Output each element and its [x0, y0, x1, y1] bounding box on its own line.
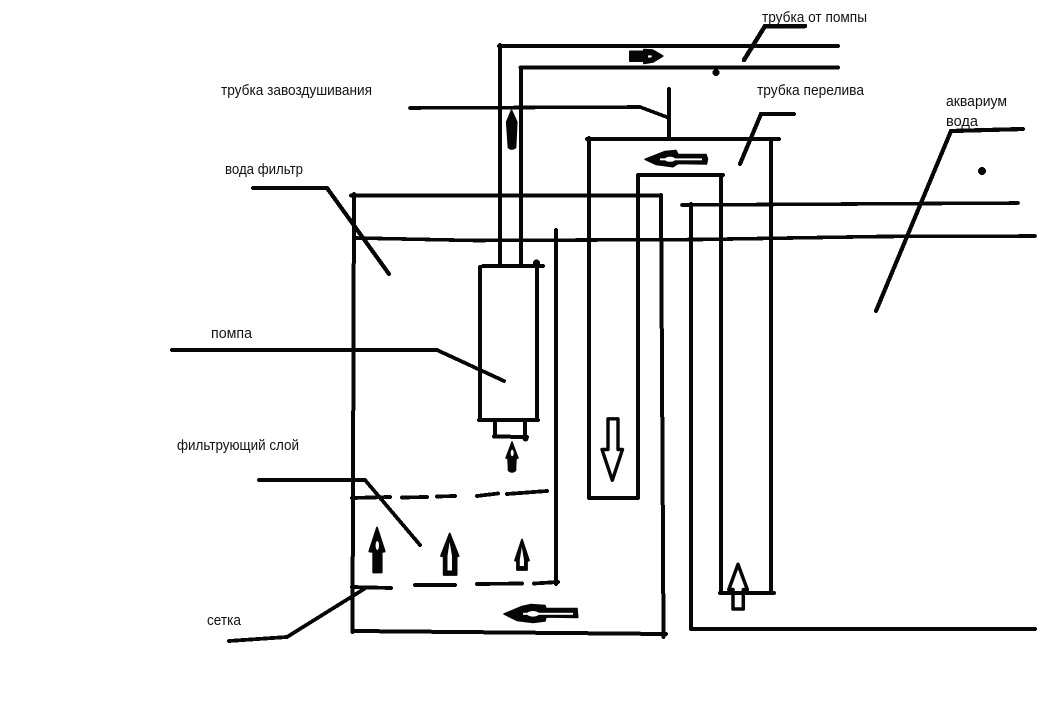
arrow: flow up in overflow right channel [729, 564, 748, 609]
wire: filter box left wall [353, 194, 355, 632]
wire: aquarium left wall [689, 204, 693, 629]
pump P1 left edge [478, 267, 482, 420]
wire: overflow box left wall [587, 138, 591, 498]
svg-text:вода фильтр: вода фильтр [225, 161, 303, 178]
wire: filter water level line [356, 236, 1035, 241]
wire: aquarium bottom edge [692, 627, 1035, 631]
wire: overflow box top edge [587, 137, 779, 141]
node: blob at pump top right [533, 260, 540, 267]
arrow: flow up through filter media 2 [441, 534, 459, 576]
svg-text:трубка перелива: трубка перелива [757, 82, 865, 99]
svg-text:трубка от помпы: трубка от помпы [762, 9, 867, 26]
wire: label pointer трубка перелива [740, 114, 794, 164]
wire: filter box top edge [351, 194, 661, 198]
wire: overflow left channel bottom cap [591, 496, 638, 500]
svg-text:фильтрующий слой: фильтрующий слой [177, 437, 299, 454]
wire: overflow inner tube left wall [636, 176, 640, 498]
arrow: flow down in overflow left channel [602, 419, 623, 481]
wire: label pointer аквариум вода [876, 129, 1023, 311]
arrow: flow left at filter bottom [504, 605, 578, 623]
wire: filter box right wall [661, 195, 664, 637]
svg-text:аквариум: аквариум [946, 93, 1007, 110]
pump nozzle left edge [493, 421, 497, 435]
wire: label pointer фильтрующий слой [259, 480, 420, 545]
wire: pump outlet tube left vertical [498, 45, 502, 265]
wire: overflow right channel bottom cap [720, 591, 774, 595]
pump nozzle bottom edge [494, 435, 527, 440]
pump P1 right edge [535, 267, 539, 420]
filter media upper dashed line [352, 491, 547, 498]
node: blob at nozzle bottom right [523, 436, 529, 442]
wire: label pointer трубка завоздушивания [410, 107, 668, 118]
wire: pump outlet tube right vertical [519, 68, 523, 265]
svg-text:трубка завоздушивания: трубка завоздушивания [221, 82, 372, 99]
node: dot on lower tube line [713, 69, 720, 76]
svg-text:вода: вода [946, 113, 979, 130]
wire: divider pipe right of pump [554, 230, 558, 584]
wire: pump outlet tube lower line [521, 66, 839, 70]
wire: aquarium water level line [682, 203, 1018, 205]
pump P1 top edge [483, 264, 543, 268]
wire: filter box bottom edge [353, 631, 666, 634]
wire: label pointer трубка от помпы [744, 26, 805, 60]
pump nozzle right edge [523, 421, 527, 436]
arrow: flow right in pump tube [630, 50, 663, 63]
wire: overflow box right wall [769, 140, 773, 593]
wire: label pointer вода фильтр [253, 188, 389, 274]
filter media lower dashed line [352, 582, 558, 588]
svg-text:сетка: сетка [207, 612, 242, 629]
arrow: flow left inside overflow box [645, 151, 708, 167]
wire: label pointer сетка [229, 589, 364, 641]
wire: pump outlet tube upper line [499, 44, 838, 48]
wire: overflow inner tube right wall [719, 176, 723, 592]
wire: air release tube vertical [667, 89, 671, 139]
node: dot in aquarium [978, 167, 986, 175]
svg-text:помпа: помпа [211, 325, 253, 342]
arrow: flow up through filter media 1 [369, 528, 384, 573]
pump P1 bottom edge [479, 418, 538, 422]
arrow: flow up through filter media 3 [515, 540, 529, 571]
arrow: small flow up under pump nozzle [506, 442, 518, 472]
wire: label pointer помпа [172, 350, 504, 381]
wire: overflow inner tube top edge [638, 173, 723, 177]
arrow: flow up inside tube from pump [507, 111, 517, 150]
